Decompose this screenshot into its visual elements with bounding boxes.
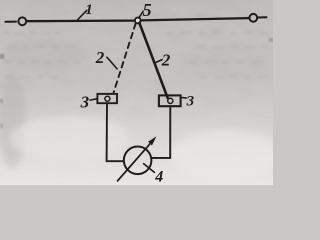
wire 1 : left insulator ring	[18, 17, 26, 25]
label 1 leader	[78, 10, 87, 19]
svg-text:5: 5	[143, 0, 152, 20]
wire from right contact down to meter	[152, 106, 170, 158]
wire from left contact down to meter	[107, 103, 124, 161]
galvanometer needle (arrow shaft)	[118, 141, 153, 181]
svg-text:2: 2	[161, 50, 171, 69]
paper background	[0, 0, 273, 185]
svg-text:1: 1	[85, 2, 93, 18]
label 2 right leader	[155, 60, 162, 63]
label 3 right leader	[182, 97, 187, 99]
contact 3 left inner circle	[105, 96, 110, 101]
label 4 leader	[144, 164, 155, 173]
wire 1 : right lead-out dash	[258, 16, 267, 18]
label 3 left leader	[90, 99, 98, 100]
edge nicks	[0, 38, 273, 128]
wire 1 : main span left of node 5	[27, 19, 135, 22]
svg-text:4: 4	[154, 169, 163, 185]
contact 3 left box	[97, 94, 117, 103]
ghost show-through text rows	[3, 14, 269, 79]
svg-text:3: 3	[80, 93, 90, 112]
svg-text:3: 3	[186, 93, 195, 109]
svg-text:2: 2	[95, 48, 105, 67]
wire 2 (solid, deflected)	[139, 23, 167, 98]
galvanometer arrowhead	[148, 136, 157, 145]
node 5 junction ring	[135, 18, 141, 24]
wire 1 : left lead-in dash	[6, 21, 17, 23]
contact 3 right inner circle	[168, 98, 173, 103]
contact 3 right box	[159, 95, 181, 106]
galvanometer 4 circle	[124, 147, 152, 175]
wire 1 : right insulator ring	[249, 14, 257, 22]
label 5 leader	[139, 11, 143, 18]
label 2 left leader	[107, 57, 117, 69]
wire 1 : main span right of node 5	[141, 18, 249, 20]
wire 2 (dashed, previous position)	[114, 23, 136, 92]
